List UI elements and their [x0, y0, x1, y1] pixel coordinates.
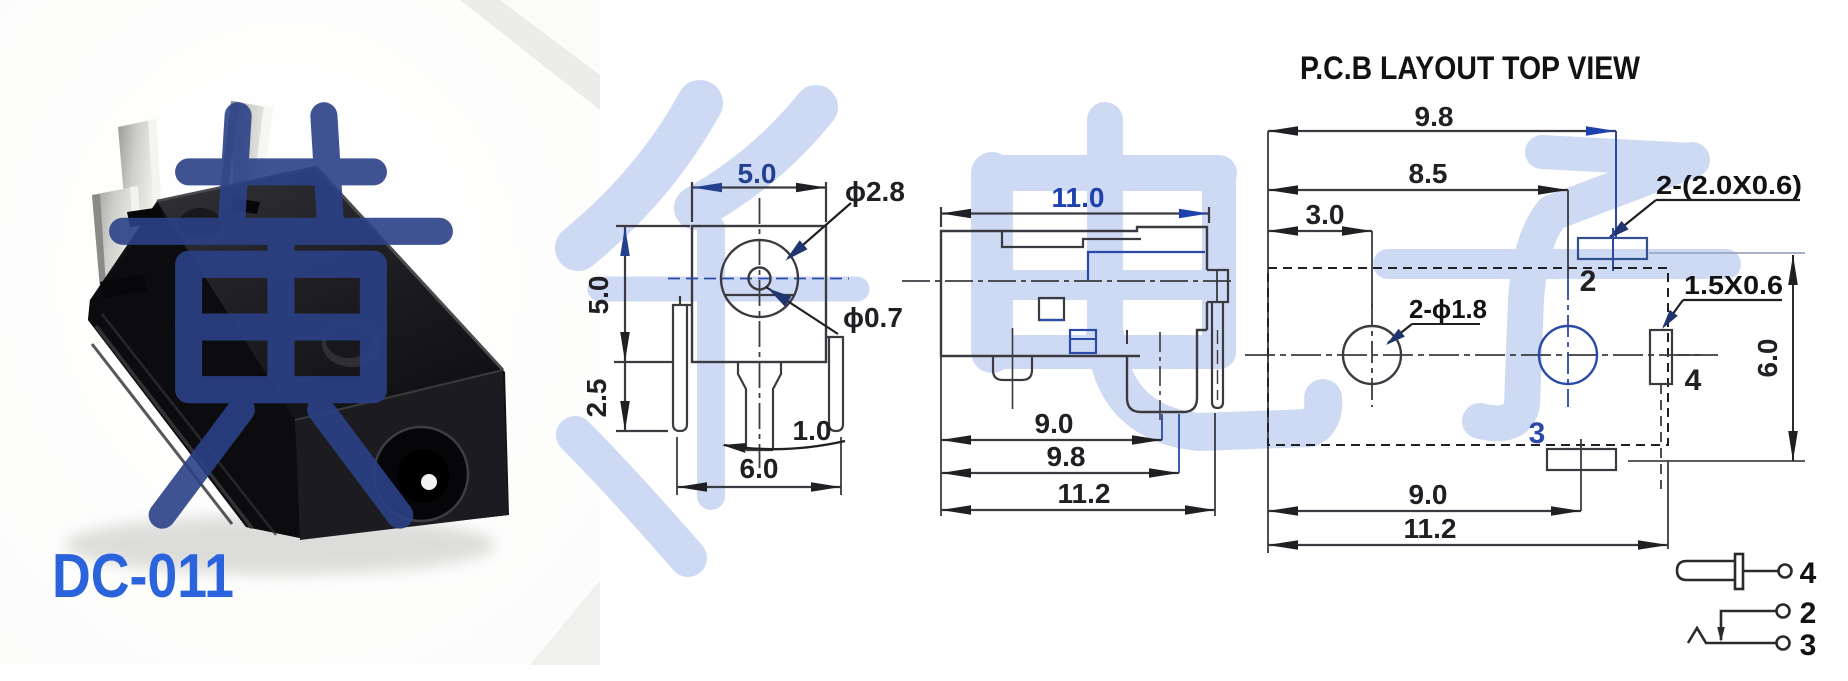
- svg-text:ϕ0.7: ϕ0.7: [843, 302, 903, 333]
- svg-text:8.5: 8.5: [1409, 158, 1448, 189]
- svg-text:11.2: 11.2: [1404, 513, 1457, 544]
- svg-text:DC-011: DC-011: [52, 542, 234, 611]
- svg-text:6.0: 6.0: [740, 453, 779, 484]
- svg-text:9.8: 9.8: [1047, 441, 1086, 472]
- svg-text:11.0: 11.0: [1052, 182, 1105, 213]
- svg-text:9.0: 9.0: [1409, 479, 1448, 510]
- svg-text:1.0: 1.0: [793, 415, 832, 446]
- svg-text:3.0: 3.0: [1306, 199, 1345, 230]
- svg-text:2: 2: [1580, 265, 1597, 298]
- svg-text:9.0: 9.0: [1035, 408, 1074, 439]
- svg-text:5.0: 5.0: [738, 158, 777, 189]
- svg-text:2: 2: [1800, 597, 1817, 630]
- svg-text:2-ϕ1.8: 2-ϕ1.8: [1409, 294, 1487, 324]
- svg-text:4: 4: [1685, 364, 1702, 397]
- svg-text:ϕ2.8: ϕ2.8: [845, 176, 905, 207]
- svg-text:1.5X0.6: 1.5X0.6: [1684, 270, 1783, 300]
- svg-text:2-(2.0X0.6): 2-(2.0X0.6): [1656, 170, 1802, 200]
- svg-text:2.5: 2.5: [581, 379, 612, 418]
- svg-text:3: 3: [1529, 417, 1546, 450]
- svg-text:P.C.B LAYOUT TOP VIEW: P.C.B LAYOUT TOP VIEW: [1300, 50, 1641, 86]
- svg-text:3: 3: [1800, 629, 1817, 662]
- svg-text:11.2: 11.2: [1058, 478, 1111, 509]
- svg-text:5.0: 5.0: [583, 276, 614, 315]
- svg-text:6.0: 6.0: [1752, 339, 1783, 378]
- svg-text:4: 4: [1800, 557, 1817, 590]
- svg-text:9.8: 9.8: [1415, 101, 1454, 132]
